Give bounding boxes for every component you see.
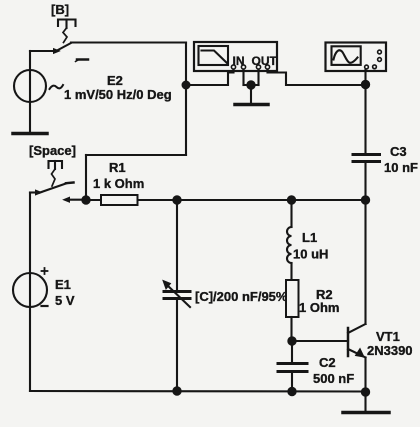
wire Bode OUT- to ground node xyxy=(257,70,259,86)
ground (E2) xyxy=(13,132,47,136)
svg-text:10 nF: 10 nF xyxy=(384,160,418,175)
wire Bode ground stem xyxy=(250,85,252,103)
wire rail to collector xyxy=(364,200,366,324)
resistor R1 xyxy=(101,195,138,205)
wire Bode OUT+ to scope node xyxy=(268,70,366,86)
transistor VT1 xyxy=(348,324,366,358)
key actuator symbol of switch Space xyxy=(49,161,63,186)
svg-text:R1: R1 xyxy=(109,160,126,175)
capacitor C3 xyxy=(353,155,380,162)
polarity + mark xyxy=(42,268,48,274)
svg-text:E1: E1 xyxy=(55,277,71,292)
polarity - mark xyxy=(42,305,48,307)
svg-text:1 k Ohm: 1 k Ohm xyxy=(93,176,144,191)
svg-text:L1: L1 xyxy=(302,230,317,245)
oscilloscope instrument xyxy=(326,43,387,72)
wire main node row y=200 xyxy=(86,199,366,201)
wire switch B to node at x=186 xyxy=(71,41,186,43)
wire L1 to R2 xyxy=(290,263,292,281)
wire switch Space to E1 xyxy=(29,193,31,274)
junction node (R1 left) xyxy=(82,196,90,204)
svg-text:[C]/200 nF/95%: [C]/200 nF/95% xyxy=(195,289,288,304)
junction node (variable capacitor bottom) xyxy=(173,387,181,395)
svg-text:E2: E2 xyxy=(107,73,123,88)
junction node (Bode IN) xyxy=(182,81,190,89)
wire bottom rail xyxy=(30,390,366,393)
svg-text:C2: C2 xyxy=(319,355,336,370)
resistor R2 xyxy=(286,280,299,317)
variable capacitor [C] xyxy=(163,281,190,308)
svg-text:500 nF: 500 nF xyxy=(313,371,354,386)
junction node (emitter / ground) xyxy=(361,388,369,396)
capacitor C2 xyxy=(278,364,307,372)
wire scope terminal to node xyxy=(364,70,366,85)
wire node to L1 xyxy=(290,200,292,227)
wire E1 to bottom rail xyxy=(29,307,31,391)
wire C3 to node xyxy=(364,163,366,200)
switch Space xyxy=(30,183,86,203)
svg-text:C3: C3 xyxy=(390,144,407,159)
junction node (C3 bottom / collector rail) xyxy=(361,196,369,204)
svg-text:2N3390: 2N3390 xyxy=(367,343,413,358)
svg-text:5 V: 5 V xyxy=(55,293,75,308)
wire E2 to ground xyxy=(29,102,31,132)
wire E2 top to switch B xyxy=(29,51,31,70)
wire Bode IN+ to node xyxy=(186,70,234,86)
svg-text:VT1: VT1 xyxy=(376,329,400,344)
junction node (scope) xyxy=(361,80,369,88)
wire node to transistor base xyxy=(292,340,348,342)
junction node (R2/C2/base) xyxy=(288,337,296,345)
ground (Bode plotter) xyxy=(235,103,268,107)
wire R2 to node xyxy=(290,317,292,341)
wire C2 to bottom rail xyxy=(291,373,293,392)
svg-text:OUT: OUT xyxy=(252,54,278,68)
inductor L1 xyxy=(287,227,292,263)
voltage source E2 xyxy=(14,70,63,102)
wire node to variable capacitor xyxy=(176,200,178,290)
svg-text:[B]: [B] xyxy=(51,2,69,17)
junction node (L1 top) xyxy=(287,196,295,204)
Bode plotter instrument xyxy=(194,42,277,71)
wire node to C3 xyxy=(364,85,366,154)
svg-text:1 Ohm: 1 Ohm xyxy=(299,300,339,315)
svg-text:IN: IN xyxy=(233,54,245,68)
svg-text:10 uH: 10 uH xyxy=(293,247,328,262)
switch B xyxy=(54,43,89,62)
junction node (variable capacitor top) xyxy=(173,196,181,204)
svg-text:[Space]: [Space] xyxy=(29,143,76,158)
voltage source E1 xyxy=(13,273,47,307)
wire rail corner to R1 node xyxy=(86,154,186,156)
ground (emitter) xyxy=(343,411,389,415)
wire node to C2 xyxy=(291,341,293,362)
junction node (C2 bottom) xyxy=(288,387,296,395)
wire vertical rail x=186 xyxy=(185,43,187,156)
wire variable capacitor to bottom rail xyxy=(176,300,178,391)
wire emitter to bottom node xyxy=(364,358,366,393)
svg-text:1 mV/50 Hz/0 Deg: 1 mV/50 Hz/0 Deg xyxy=(64,87,172,102)
wire Bode IN- to ground node xyxy=(242,70,244,86)
key actuator symbol of switch B xyxy=(58,20,76,43)
wire node to ground xyxy=(364,392,366,411)
junction node (Bode ground) xyxy=(247,81,255,89)
